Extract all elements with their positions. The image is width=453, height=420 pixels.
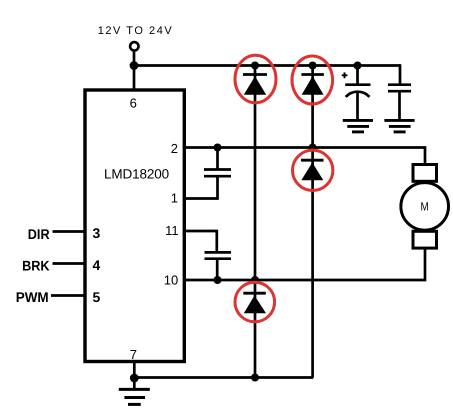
capacitor C2 top plate [345, 83, 370, 86]
svg-text:DIR: DIR [28, 226, 50, 242]
motor M1 top terminal [413, 165, 437, 182]
capacitor C5 lead from pin 11 [215, 230, 218, 253]
svg-text:10: 10 [164, 273, 178, 288]
diode D3 [301, 163, 323, 181]
junction: pin 7 / ground rail [130, 374, 139, 383]
wire: DIR stub to pin 3 [53, 230, 86, 233]
diode D1 cathode bar [243, 73, 267, 76]
diode D1 [244, 76, 266, 95]
diode D2 cathode bar [301, 73, 324, 76]
wire: motor bottom lead [424, 247, 427, 282]
wire: pin 1 [184, 197, 219, 200]
svg-text:M: M [421, 200, 429, 214]
ground under C3 [384, 120, 414, 131]
svg-text:PWM: PWM [16, 289, 49, 305]
junction: pin 2 / capacitor C4 [214, 144, 222, 152]
junction: V+ / diode D2 [309, 62, 317, 70]
diode D4 [244, 296, 266, 314]
junction: V+ / capacitor C2 [354, 62, 362, 70]
ground lead below pin 7 [133, 378, 136, 389]
capacitor C4 lead to pin 1 [216, 176, 219, 198]
svg-text:5: 5 [93, 289, 101, 305]
ground symbol below pin 7 [119, 389, 150, 404]
capacitor C2 curved plate [346, 92, 370, 97]
op-amp U1 LMD18200 outline [85, 90, 184, 362]
svg-text:3: 3 [93, 225, 101, 241]
plus sign of C2 [342, 72, 348, 78]
capacitor C2 lead from V+ [356, 66, 359, 85]
svg-text:7: 7 [130, 347, 137, 362]
junction: pin 2 / diode D2-D3 line [309, 144, 317, 152]
highlight circle around D2 [292, 56, 333, 104]
diode D2 [302, 76, 324, 95]
ground under C2 [343, 120, 373, 131]
wire: pin 7 to ground [133, 362, 136, 379]
capacitor C2 lead to ground [356, 93, 359, 121]
junction: V+ at pin 6 [130, 61, 139, 70]
wire: pin 2 (OUT1) to motor top [184, 146, 425, 149]
svg-text:1: 1 [171, 190, 178, 205]
junction: V+ / diode D1 [251, 62, 259, 70]
wire: pin 11 [184, 230, 217, 233]
capacitor C3 bottom plate [388, 90, 411, 93]
capacitor C4 lead from pin 2 wire [216, 148, 219, 170]
highlight circle around D4 [235, 282, 275, 322]
junction: pin 10 / capacitor C5 [214, 276, 222, 284]
svg-text:4: 4 [93, 257, 101, 273]
highlight circle around D1 [235, 55, 276, 103]
capacitor C4 top plate [204, 168, 231, 171]
junction: pin 10 / diode D1-D4 line [251, 276, 259, 284]
svg-text:12V TO 24V: 12V TO 24V [98, 25, 173, 37]
capacitor C3 lead to ground [398, 91, 401, 120]
diode D4 cathode bar [243, 292, 265, 295]
wire: motor top lead [424, 146, 427, 166]
motor M1 bottom terminal [413, 231, 437, 248]
wire: diode chain D1/D4 vertical [254, 66, 257, 378]
capacitor C3 top plate [388, 83, 411, 86]
svg-text:6: 6 [130, 96, 137, 111]
junction: ground rail / diode D4 [251, 374, 259, 382]
svg-text:LMD18200: LMD18200 [104, 166, 169, 181]
capacitor C5 top plate [205, 251, 232, 254]
highlight circle around D3 [293, 150, 333, 190]
wire: V+ rail [134, 64, 400, 67]
svg-text:BRK: BRK [22, 257, 50, 273]
wire: rail corner down to capacitor C2 [399, 64, 402, 85]
capacitor C5 bottom plate [205, 257, 232, 260]
wire: diode chain D2/D3 vertical [311, 66, 314, 378]
svg-text:2: 2 [171, 141, 178, 156]
wire: BRK stub to pin 4 [53, 262, 86, 265]
svg-text:11: 11 [165, 223, 179, 238]
diode D3 cathode bar [301, 159, 324, 162]
wire: ground rail [134, 376, 313, 379]
capacitor C5 lead to pin 10 wire [216, 259, 219, 280]
supply terminal (open circle) [130, 42, 138, 50]
wire: PWM stub to pin 5 [51, 294, 85, 297]
wire: pin 10 (OUT2) to motor bottom [184, 279, 425, 282]
motor M1 body [401, 183, 449, 231]
capacitor C4 bottom plate [204, 175, 231, 178]
wire: terminal down to pin 6 [133, 51, 136, 90]
